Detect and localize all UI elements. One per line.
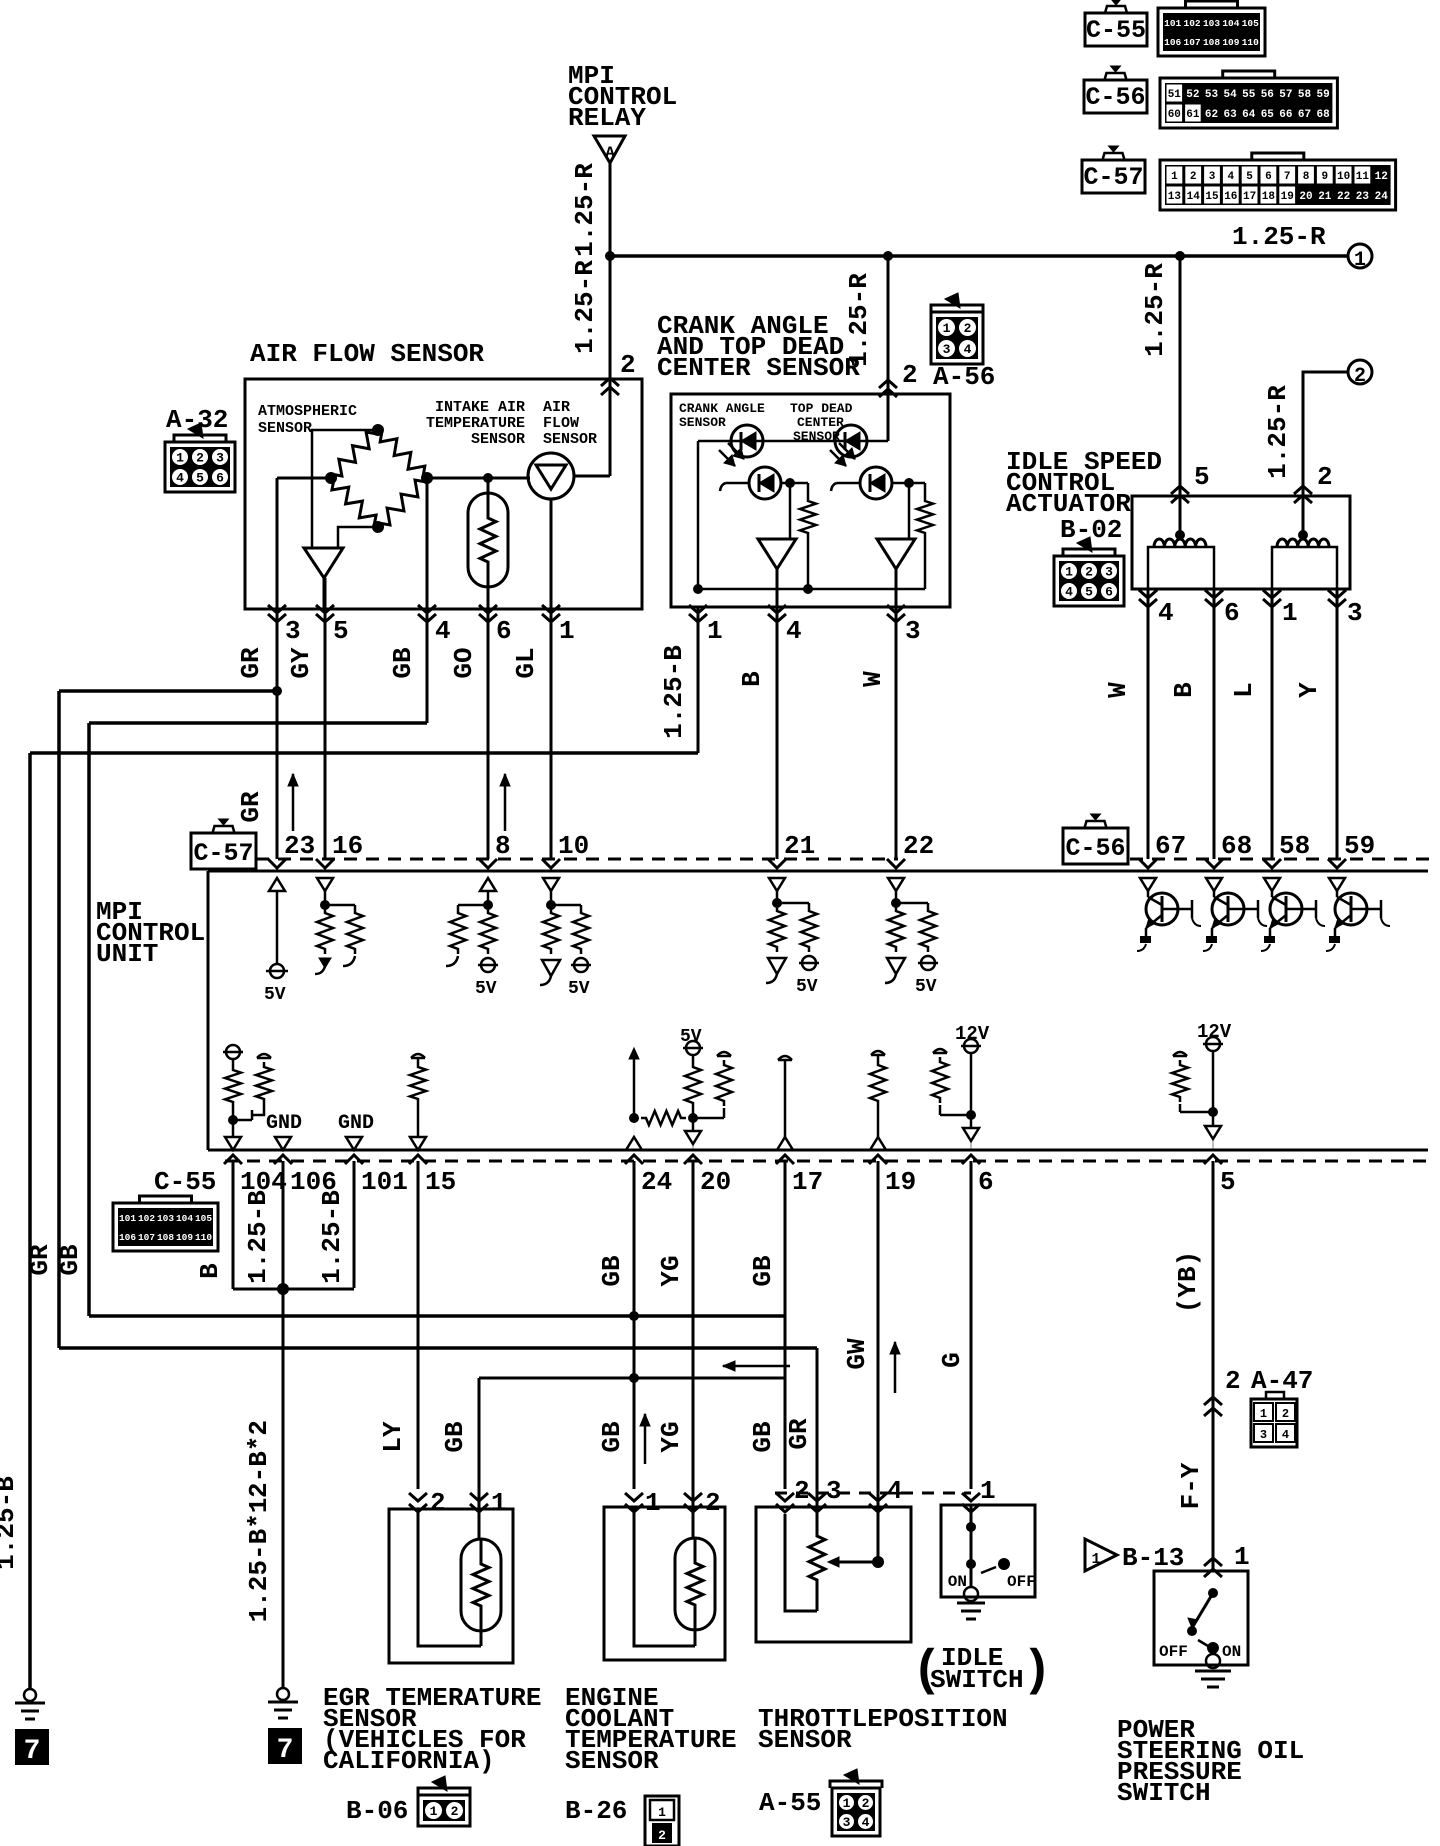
svg-text:1.25-B: 1.25-B xyxy=(243,1190,273,1284)
svg-text:17: 17 xyxy=(1243,191,1256,203)
svg-text:YG: YG xyxy=(656,1421,686,1452)
svg-text:5V: 5V xyxy=(915,977,937,997)
svg-text:67: 67 xyxy=(1155,831,1186,861)
svg-text:2-B*2: 2-B*2 xyxy=(244,1420,274,1498)
svg-text:GW: GW xyxy=(842,1338,872,1370)
svg-text:GB: GB xyxy=(597,1421,627,1453)
svg-text:2: 2 xyxy=(430,1488,446,1518)
svg-text:20: 20 xyxy=(700,1167,731,1197)
svg-text:5: 5 xyxy=(196,471,204,486)
svg-text:101: 101 xyxy=(361,1167,408,1197)
svg-text:INTAKE AIR: INTAKE AIR xyxy=(435,399,525,416)
svg-text:2: 2 xyxy=(196,451,204,466)
svg-text:AIR: AIR xyxy=(543,399,570,416)
svg-text:5: 5 xyxy=(1194,462,1210,492)
svg-text:(YB): (YB) xyxy=(1173,1251,1203,1313)
svg-text:3: 3 xyxy=(1209,171,1216,183)
svg-text:2: 2 xyxy=(1354,365,1366,388)
svg-text:22: 22 xyxy=(1337,191,1350,203)
svg-text:9: 9 xyxy=(1321,171,1328,183)
svg-text:GL: GL xyxy=(511,647,541,678)
svg-text:51: 51 xyxy=(1168,89,1182,101)
svg-text:GO: GO xyxy=(449,647,479,678)
svg-text:3: 3 xyxy=(216,451,224,466)
svg-text:(: ( xyxy=(912,1643,942,1700)
svg-text:1: 1 xyxy=(658,1805,666,1820)
svg-text:1: 1 xyxy=(707,616,723,646)
svg-text:15: 15 xyxy=(425,1167,456,1197)
svg-text:SENSOR: SENSOR xyxy=(679,415,726,430)
svg-text:OFF: OFF xyxy=(1159,1643,1188,1661)
svg-text:SENSOR: SENSOR xyxy=(543,431,597,448)
svg-text:3: 3 xyxy=(285,616,301,646)
svg-text:4: 4 xyxy=(862,1815,870,1830)
svg-text:3: 3 xyxy=(826,1476,842,1506)
svg-text:4: 4 xyxy=(435,616,451,646)
svg-text:67: 67 xyxy=(1298,109,1311,121)
svg-text:19: 19 xyxy=(885,1167,916,1197)
svg-text:2: 2 xyxy=(1282,1407,1289,1421)
svg-text:10: 10 xyxy=(1337,171,1350,183)
svg-text:A-55: A-55 xyxy=(759,1788,821,1818)
svg-text:F-Y: F-Y xyxy=(1176,1462,1206,1509)
svg-text:SENSOR: SENSOR xyxy=(471,431,525,448)
svg-text:CENTER SENSOR: CENTER SENSOR xyxy=(657,353,860,383)
svg-text:1: 1 xyxy=(430,1804,438,1819)
svg-text:4: 4 xyxy=(1227,171,1234,183)
svg-text:1.25-R: 1.25-R xyxy=(570,260,600,354)
svg-text:53: 53 xyxy=(1205,89,1219,101)
svg-text:5: 5 xyxy=(1085,585,1093,600)
svg-text:GR: GR xyxy=(784,1418,814,1450)
svg-text:1: 1 xyxy=(176,451,184,466)
svg-text:24: 24 xyxy=(1375,191,1389,203)
svg-text:7: 7 xyxy=(277,1735,294,1766)
svg-text:15: 15 xyxy=(1205,191,1219,203)
svg-text:66: 66 xyxy=(1279,109,1292,121)
svg-text:): ) xyxy=(1022,1643,1052,1700)
svg-text:103: 103 xyxy=(1203,18,1220,29)
svg-text:6: 6 xyxy=(1105,585,1113,600)
svg-text:GB: GB xyxy=(748,1421,778,1453)
svg-text:20: 20 xyxy=(1299,191,1312,203)
svg-text:8: 8 xyxy=(1303,171,1310,183)
svg-text:3: 3 xyxy=(1105,565,1113,580)
svg-text:4: 4 xyxy=(887,1476,903,1506)
svg-text:1: 1 xyxy=(1171,171,1178,183)
svg-text:1: 1 xyxy=(1260,1407,1267,1421)
svg-text:C-56: C-56 xyxy=(1085,83,1145,112)
svg-text:Y: Y xyxy=(1294,682,1324,698)
svg-text:1.25-B*1: 1.25-B*1 xyxy=(244,1498,274,1623)
svg-text:2: 2 xyxy=(794,1476,810,1506)
svg-text:2: 2 xyxy=(705,1488,721,1518)
svg-text:7: 7 xyxy=(1284,171,1291,183)
svg-text:GR: GR xyxy=(25,1244,55,1276)
svg-text:CALIFORNIA): CALIFORNIA) xyxy=(323,1746,495,1776)
svg-text:106: 106 xyxy=(1164,37,1181,48)
svg-text:65: 65 xyxy=(1261,109,1275,121)
svg-text:60: 60 xyxy=(1168,109,1181,121)
svg-text:64: 64 xyxy=(1242,109,1256,121)
svg-text:13: 13 xyxy=(1168,191,1182,203)
svg-text:68: 68 xyxy=(1316,109,1330,121)
svg-text:AIR FLOW SENSOR: AIR FLOW SENSOR xyxy=(250,339,484,369)
svg-text:4: 4 xyxy=(1282,1428,1289,1442)
svg-text:SENSOR: SENSOR xyxy=(258,420,312,437)
svg-text:2: 2 xyxy=(620,350,636,380)
svg-text:CRANK ANGLE: CRANK ANGLE xyxy=(679,401,765,416)
svg-text:GR: GR xyxy=(236,791,266,823)
svg-text:22: 22 xyxy=(903,831,934,861)
svg-text:UNIT: UNIT xyxy=(96,939,158,969)
svg-text:21: 21 xyxy=(1318,191,1332,203)
svg-text:OFF: OFF xyxy=(1007,1573,1036,1591)
svg-text:B: B xyxy=(1169,682,1199,698)
svg-text:2: 2 xyxy=(1225,1366,1241,1396)
svg-text:GND: GND xyxy=(266,1112,302,1135)
svg-text:1: 1 xyxy=(645,1488,661,1518)
svg-text:105: 105 xyxy=(195,1213,212,1224)
svg-text:59: 59 xyxy=(1316,89,1329,101)
svg-text:3: 3 xyxy=(943,342,951,357)
svg-text:11: 11 xyxy=(1356,171,1370,183)
svg-text:1.25-B: 1.25-B xyxy=(317,1190,347,1284)
svg-text:21: 21 xyxy=(784,831,815,861)
svg-text:L: L xyxy=(1229,682,1259,698)
svg-text:W: W xyxy=(858,671,888,687)
svg-text:C-55: C-55 xyxy=(1086,16,1146,45)
svg-text:CENTER: CENTER xyxy=(797,415,844,430)
svg-text:57: 57 xyxy=(1279,89,1292,101)
svg-text:6: 6 xyxy=(978,1167,994,1197)
svg-text:110: 110 xyxy=(1242,37,1259,48)
svg-text:5: 5 xyxy=(1246,171,1253,183)
svg-text:107: 107 xyxy=(138,1232,155,1243)
svg-text:23: 23 xyxy=(1356,191,1370,203)
svg-text:61: 61 xyxy=(1186,109,1200,121)
svg-text:2: 2 xyxy=(902,360,918,390)
svg-text:5V: 5V xyxy=(796,977,818,997)
svg-text:1.25-B: 1.25-B xyxy=(0,1476,21,1570)
svg-text:4: 4 xyxy=(786,616,802,646)
svg-text:4: 4 xyxy=(964,342,972,357)
svg-text:5V: 5V xyxy=(475,979,497,999)
svg-text:2: 2 xyxy=(964,321,972,336)
svg-text:TOP DEAD: TOP DEAD xyxy=(790,401,853,416)
svg-text:C-57: C-57 xyxy=(193,839,253,868)
svg-text:1.25-B: 1.25-B xyxy=(659,645,689,739)
svg-text:1.25-R: 1.25-R xyxy=(570,163,600,257)
svg-text:109: 109 xyxy=(1222,37,1239,48)
svg-text:104: 104 xyxy=(176,1213,193,1224)
svg-text:B-13: B-13 xyxy=(1122,1543,1184,1573)
svg-text:C-56: C-56 xyxy=(1065,834,1125,863)
svg-text:FLOW: FLOW xyxy=(543,415,579,432)
svg-text:1.25-R: 1.25-R xyxy=(1263,385,1293,479)
svg-text:1: 1 xyxy=(559,616,575,646)
svg-text:1.25-R: 1.25-R xyxy=(1140,263,1170,357)
svg-text:55: 55 xyxy=(1242,89,1256,101)
svg-text:2: 2 xyxy=(451,1804,459,1819)
svg-text:54: 54 xyxy=(1223,89,1237,101)
svg-text:1.25-R: 1.25-R xyxy=(1232,222,1326,252)
svg-text:12V: 12V xyxy=(955,1023,990,1045)
svg-text:107: 107 xyxy=(1184,37,1201,48)
svg-text:SENSOR: SENSOR xyxy=(758,1725,852,1755)
svg-text:3: 3 xyxy=(843,1815,851,1830)
svg-text:101: 101 xyxy=(1164,18,1181,29)
svg-text:5: 5 xyxy=(333,616,349,646)
svg-text:GB: GB xyxy=(388,647,418,679)
svg-text:101: 101 xyxy=(119,1213,136,1224)
svg-text:2: 2 xyxy=(862,1796,870,1811)
svg-text:58: 58 xyxy=(1279,831,1310,861)
svg-text:1: 1 xyxy=(1065,565,1073,580)
svg-text:B-02: B-02 xyxy=(1060,515,1122,545)
svg-text:ON: ON xyxy=(1222,1643,1241,1661)
svg-text:6: 6 xyxy=(216,471,224,486)
svg-text:GB: GB xyxy=(440,1421,470,1453)
svg-text:109: 109 xyxy=(176,1232,193,1243)
svg-text:12: 12 xyxy=(1375,171,1388,183)
svg-text:102: 102 xyxy=(138,1213,155,1224)
svg-text:23: 23 xyxy=(284,831,315,861)
svg-text:8: 8 xyxy=(495,831,511,861)
svg-text:6: 6 xyxy=(1224,598,1240,628)
svg-text:W: W xyxy=(1103,682,1133,698)
svg-text:3: 3 xyxy=(1347,598,1363,628)
svg-text:1: 1 xyxy=(980,1476,996,1506)
svg-text:6: 6 xyxy=(496,616,512,646)
svg-text:GB: GB xyxy=(597,1255,627,1287)
svg-text:5V: 5V xyxy=(568,979,590,999)
svg-text:2: 2 xyxy=(1190,171,1197,183)
svg-text:59: 59 xyxy=(1344,831,1375,861)
svg-text:B-26: B-26 xyxy=(565,1796,627,1826)
svg-text:C-57: C-57 xyxy=(1083,163,1143,192)
svg-text:5: 5 xyxy=(1220,1167,1236,1197)
svg-text:2: 2 xyxy=(1085,565,1093,580)
svg-text:A-56: A-56 xyxy=(933,362,995,392)
svg-text:GR: GR xyxy=(236,647,266,679)
svg-text:4: 4 xyxy=(1158,598,1174,628)
svg-text:1: 1 xyxy=(1234,1542,1250,1572)
svg-text:103: 103 xyxy=(157,1213,174,1224)
svg-text:5V: 5V xyxy=(264,985,286,1005)
svg-text:6: 6 xyxy=(1265,171,1272,183)
svg-text:16: 16 xyxy=(1224,191,1237,203)
svg-text:63: 63 xyxy=(1223,109,1237,121)
svg-text:GB: GB xyxy=(55,1244,85,1276)
svg-text:C-55: C-55 xyxy=(154,1167,216,1197)
svg-text:19: 19 xyxy=(1281,191,1294,203)
svg-text:1: 1 xyxy=(943,321,951,336)
svg-text:YG: YG xyxy=(656,1255,686,1286)
svg-text:12V: 12V xyxy=(1197,1021,1232,1043)
svg-text:ON: ON xyxy=(948,1573,967,1591)
svg-text:4: 4 xyxy=(1065,585,1073,600)
svg-text:68: 68 xyxy=(1221,831,1252,861)
svg-text:104: 104 xyxy=(1222,18,1239,29)
svg-text:18: 18 xyxy=(1262,191,1276,203)
svg-text:52: 52 xyxy=(1186,89,1199,101)
svg-text:2: 2 xyxy=(1317,462,1333,492)
svg-text:SWITCH: SWITCH xyxy=(1117,1778,1211,1808)
svg-text:SWITCH: SWITCH xyxy=(930,1665,1024,1695)
svg-text:56: 56 xyxy=(1261,89,1274,101)
svg-text:GB: GB xyxy=(748,1255,778,1287)
svg-text:SENSOR: SENSOR xyxy=(565,1746,659,1776)
svg-text:B-06: B-06 xyxy=(346,1796,408,1826)
svg-text:1: 1 xyxy=(1091,1551,1100,1568)
svg-text:3: 3 xyxy=(905,616,921,646)
svg-text:B: B xyxy=(737,671,767,687)
svg-text:RELAY: RELAY xyxy=(568,103,646,133)
svg-text:24: 24 xyxy=(641,1167,672,1197)
svg-text:2: 2 xyxy=(658,1828,666,1843)
svg-text:3: 3 xyxy=(1260,1428,1267,1442)
svg-text:5V: 5V xyxy=(680,1027,702,1047)
svg-text:A: A xyxy=(605,144,615,162)
svg-text:1: 1 xyxy=(491,1488,507,1518)
svg-text:ATMOSPHERIC: ATMOSPHERIC xyxy=(258,403,357,420)
svg-text:GY: GY xyxy=(286,647,316,679)
svg-text:4: 4 xyxy=(176,471,184,486)
svg-text:108: 108 xyxy=(1203,37,1220,48)
svg-text:62: 62 xyxy=(1205,109,1218,121)
svg-text:10: 10 xyxy=(558,831,589,861)
svg-text:110: 110 xyxy=(195,1232,212,1243)
svg-text:17: 17 xyxy=(792,1167,823,1197)
svg-text:14: 14 xyxy=(1187,191,1201,203)
svg-text:105: 105 xyxy=(1242,18,1259,29)
svg-text:1: 1 xyxy=(1282,598,1298,628)
svg-text:16: 16 xyxy=(332,831,363,861)
svg-text:TEMPERATURE: TEMPERATURE xyxy=(426,415,525,432)
svg-text:102: 102 xyxy=(1184,18,1201,29)
svg-text:58: 58 xyxy=(1298,89,1312,101)
svg-text:1: 1 xyxy=(1354,249,1366,272)
svg-text:108: 108 xyxy=(157,1232,174,1243)
svg-text:B: B xyxy=(195,1263,225,1279)
svg-text:1: 1 xyxy=(843,1796,851,1811)
svg-text:LY: LY xyxy=(378,1421,408,1453)
svg-text:GND: GND xyxy=(338,1112,374,1135)
svg-text:G: G xyxy=(937,1352,967,1368)
svg-text:7: 7 xyxy=(24,1736,41,1767)
svg-text:106: 106 xyxy=(119,1232,136,1243)
